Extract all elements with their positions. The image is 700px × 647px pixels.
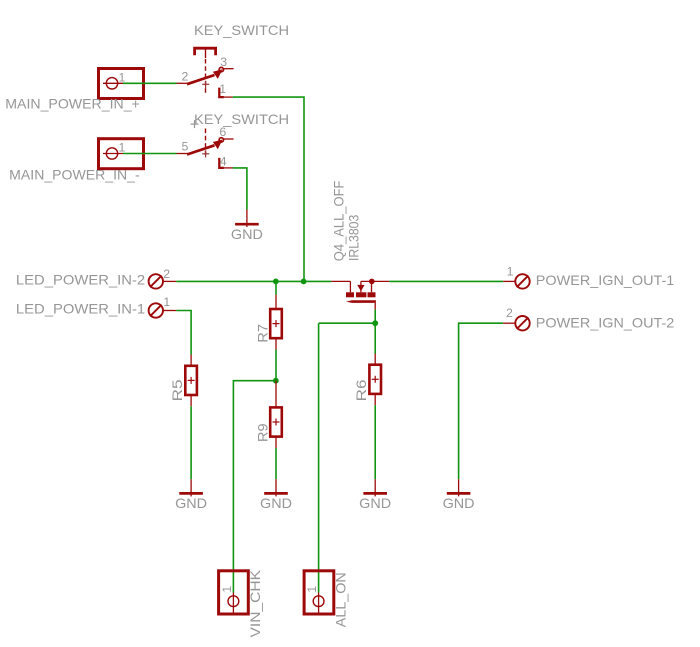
svg-text:LED_POWER_IN-1: LED_POWER_IN-1	[16, 301, 146, 317]
switch S1 gang1 pin 2 stub	[177, 82, 189, 84]
pin number 6	[219, 125, 226, 139]
connector MAIN_POWER_IN_- pin line	[103, 153, 123, 155]
connector ALL_ON pin line	[318, 593, 320, 613]
ground GND under R9: pin	[275, 479, 277, 496]
terminal LED_POWER_IN-1	[149, 303, 163, 317]
switch S1 gang2 pin 6 line	[223, 138, 233, 140]
wire net VIN_CHK horizontal and riser	[233, 381, 275, 593]
transistor Q4 value IRL3803	[345, 215, 361, 261]
switch S1 gang1 pin 3 line	[223, 68, 233, 70]
switch S1 gang2 pin 5 stub	[177, 153, 189, 155]
connector J1 MAIN_POWER_IN_+ box	[99, 69, 144, 99]
svg-text:R9: R9	[254, 423, 270, 442]
junction dot at switch-net / drain net	[301, 279, 307, 285]
svg-text:KEY_SWITCH: KEY_SWITCH	[194, 111, 289, 127]
svg-text:2: 2	[506, 306, 513, 320]
wire net R5 to GND	[190, 406, 192, 479]
transistor Q4 channel pad 2	[356, 292, 366, 297]
junction dot at R7 top	[273, 279, 279, 285]
svg-text:5: 5	[182, 140, 189, 154]
svg-text:VIN_CHK: VIN_CHK	[247, 569, 263, 637]
junction dot gate/R6/ALL_ON	[372, 320, 378, 326]
ground GND under POWER_IGN_OUT-2: pin	[458, 479, 460, 496]
resistor R6 top pin	[374, 354, 376, 365]
svg-text:1: 1	[119, 141, 126, 155]
ground GND under R5: bar	[179, 492, 203, 495]
svg-text:1: 1	[119, 70, 126, 84]
wire net from switch pin 4 to GND	[233, 168, 247, 210]
svg-text:3: 3	[220, 55, 227, 69]
svg-text:2: 2	[163, 267, 170, 281]
transistor Q4 gate bar	[346, 300, 376, 303]
resistor R9 body	[270, 407, 282, 436]
connector VIN_CHK pin circle	[228, 596, 239, 607]
pin number 1 of LED_POWER_IN-1	[163, 295, 170, 309]
svg-text:1: 1	[219, 82, 226, 96]
pin number 1 of VIN_CHK	[220, 586, 234, 593]
wire net MOSFET source to POWER_IGN_OUT-1	[389, 280, 503, 282]
pin number 1 of POWER_IGN_OUT-1	[507, 264, 514, 278]
pin number 1 of MAIN_POWER_IN_-	[119, 141, 126, 155]
pin number 1 of MAIN_POWER_IN_+	[119, 70, 126, 84]
ground GND under R6: text	[359, 495, 391, 511]
resistor R6 bottom pin	[374, 394, 376, 405]
pin number 4 of switch gang2	[220, 155, 227, 169]
terminal POWER_IGN_OUT-1 pin stub	[503, 280, 515, 282]
switch S1 gang1 actuator bracket	[195, 48, 216, 58]
label ALL_ON	[332, 572, 348, 627]
connector MAIN_POWER_IN_- pin circle	[106, 148, 117, 159]
terminal POWER_IGN_OUT-1	[515, 274, 529, 288]
svg-text:1: 1	[220, 586, 234, 593]
svg-text:1: 1	[163, 295, 170, 309]
svg-text:MAIN_POWER_IN_-: MAIN_POWER_IN_-	[9, 166, 140, 182]
wire net LED_POWER_IN-2 to MOSFET drain	[176, 280, 331, 282]
pin number 2 of LED_POWER_IN-2	[163, 267, 170, 281]
label POWER_IGN_OUT-1	[536, 272, 675, 288]
terminal POWER_IGN_OUT-2 pin stub	[503, 322, 515, 324]
switch S1 gang2 pivot cross	[202, 151, 209, 158]
resistor R9 name label	[254, 423, 270, 442]
transistor Q4 drain pin	[331, 281, 350, 292]
resistor R9 plus mark	[273, 419, 280, 426]
connector ALL_ON pin circle	[313, 596, 324, 607]
transistor Q4 gate pin	[374, 303, 376, 310]
svg-text:GND: GND	[443, 495, 475, 511]
switch S1 gang1 lever	[187, 69, 223, 84]
transistor Q4 channel pad 1	[346, 292, 354, 297]
pin number 2	[182, 69, 189, 83]
pin number 2 of POWER_IGN_OUT-2	[506, 306, 513, 320]
svg-text:POWER_IGN_OUT-1: POWER_IGN_OUT-1	[536, 272, 675, 288]
resistor R7 name label	[254, 324, 270, 343]
wire net POWER_IGN_OUT-2 to GND	[459, 323, 504, 479]
svg-text:R6: R6	[353, 379, 369, 401]
connector MAIN_POWER_IN_+ pin line	[103, 82, 123, 84]
connector ALL_ON box	[304, 571, 334, 614]
resistor R6 body	[369, 365, 381, 394]
label KEY_SWITCH gang 1	[194, 22, 289, 38]
switch S1 gang2 linkage dashed line	[205, 129, 207, 157]
wire net ALL_ON riser	[318, 323, 320, 592]
svg-text:4: 4	[220, 155, 227, 169]
transistor Q4 substrate arrow	[357, 281, 364, 292]
switch S1 gang2 lever	[187, 140, 223, 155]
svg-text:6: 6	[219, 125, 226, 139]
pin number 5	[182, 140, 189, 154]
transistor Q4 label Q4_ALL_OFF	[331, 181, 347, 262]
switch S1 origin cross	[191, 120, 199, 128]
transistor Q4 channel pad 3	[368, 292, 376, 297]
wire net R6 to GND	[374, 405, 376, 479]
resistor R7 bottom pin	[275, 338, 277, 349]
svg-text:GND: GND	[175, 495, 207, 511]
wire net junction to R6	[374, 323, 376, 353]
resistor R5 bottom pin	[190, 395, 192, 406]
resistor R5 plus mark	[188, 377, 195, 384]
wire net ALL_ON horizontal	[319, 322, 376, 324]
resistor R7 top pin	[275, 295, 277, 309]
wire net from MAIN_POWER_IN_+ to switch pin 2	[123, 82, 177, 84]
resistor R5 top pin	[190, 355, 192, 366]
wire net R7 bottom to junction	[275, 350, 277, 381]
svg-text:MAIN_POWER_IN_+: MAIN_POWER_IN_+	[5, 96, 140, 112]
ground GND under R6: pin	[374, 479, 376, 496]
connector VIN_CHK pin line	[232, 593, 234, 613]
svg-text:IRL3803: IRL3803	[345, 215, 361, 261]
resistor R7 body	[270, 309, 282, 338]
wire net from switch pin 1 right then down to drain net	[233, 97, 304, 281]
svg-text:R7: R7	[254, 324, 270, 343]
terminal LED_POWER_IN-2	[149, 274, 163, 288]
switch S1 gang1 pin 1 contact hook	[219, 88, 224, 98]
ground GND under switch: text	[231, 226, 263, 242]
ground GND under R9: bar	[264, 492, 288, 495]
transistor Q4 source top bar	[361, 281, 389, 292]
switch S1 gang2 pin 6 contact hook	[219, 138, 223, 142]
ground GND under POWER_IGN_OUT-2: text	[443, 495, 475, 511]
connector MAIN_POWER_IN_+ pin circle	[106, 78, 117, 89]
label LED_POWER_IN-2	[16, 272, 146, 288]
label MAIN_POWER_IN_+	[5, 96, 140, 112]
terminal LED_POWER_IN-1 pin stub	[163, 310, 176, 312]
resistor R7 plus mark	[273, 320, 280, 327]
svg-text:POWER_IGN_OUT-2: POWER_IGN_OUT-2	[536, 315, 675, 331]
junction dot R7/R9/VIN_CHK	[273, 378, 279, 384]
switch S1 gang2 pin 4 contact hook	[219, 158, 224, 168]
pin number 1 of switch gang1	[219, 82, 226, 96]
label MAIN_POWER_IN_-	[9, 166, 140, 182]
label POWER_IGN_OUT-2	[536, 315, 675, 331]
ground GND under switch: bar	[235, 223, 259, 226]
wire net R9 to GND	[275, 448, 277, 479]
resistor R9 top pin	[275, 381, 277, 408]
switch S1 gang1 pivot cross	[202, 81, 209, 88]
ground GND under R9: text	[260, 495, 292, 511]
label LED_POWER_IN-1	[16, 301, 146, 317]
switch S1 gang1 linkage dashed line	[205, 59, 207, 94]
wire net drain-net down to R7	[275, 281, 277, 294]
svg-text:GND: GND	[231, 226, 263, 242]
ground GND under R6: bar	[363, 492, 387, 495]
switch S1 gang1 pin 1 stub	[224, 96, 233, 98]
terminal LED_POWER_IN-2 pin stub	[163, 280, 176, 282]
svg-text:ALL_ON: ALL_ON	[332, 572, 348, 627]
svg-text:1: 1	[507, 264, 514, 278]
svg-text:Q4_ALL_OFF: Q4_ALL_OFF	[331, 181, 347, 262]
wire net LED_POWER_IN-1 to R5	[176, 311, 191, 355]
svg-text:2: 2	[182, 69, 189, 83]
switch S1 gang2 pin 4 stub	[224, 167, 233, 169]
label VIN_CHK	[247, 569, 263, 637]
svg-text:R5: R5	[169, 379, 185, 401]
pin number 1 of ALL_ON	[305, 586, 319, 593]
resistor R6 plus mark	[372, 376, 379, 383]
wire net from MAIN_POWER_IN_- to switch pin 5	[123, 153, 177, 155]
svg-text:KEY_SWITCH: KEY_SWITCH	[194, 22, 289, 38]
label KEY_SWITCH gang 2	[194, 111, 289, 127]
resistor R5 name label	[169, 379, 185, 401]
wire net gate to junction	[374, 310, 376, 324]
connector VIN_CHK box	[219, 571, 249, 614]
switch S1 gang1 pin 3 contact hook	[219, 67, 223, 71]
svg-text:GND: GND	[260, 495, 292, 511]
ground GND under switch: pin	[246, 210, 248, 228]
pin number 3	[220, 55, 227, 69]
resistor R5 body	[185, 366, 197, 395]
svg-text:GND: GND	[359, 495, 391, 511]
ground GND under POWER_IGN_OUT-2: bar	[447, 492, 471, 495]
terminal POWER_IGN_OUT-2	[515, 316, 529, 330]
transistor Q4 source junction dot (red)	[369, 279, 375, 285]
ground GND under R5: text	[175, 495, 207, 511]
ground GND under R5: pin	[190, 479, 192, 496]
resistor R6 name label	[353, 379, 369, 401]
svg-text:1: 1	[305, 586, 319, 593]
connector J2 MAIN_POWER_IN_- box	[99, 139, 144, 169]
svg-text:LED_POWER_IN-2: LED_POWER_IN-2	[16, 272, 146, 288]
resistor R9 bottom pin	[275, 437, 277, 448]
